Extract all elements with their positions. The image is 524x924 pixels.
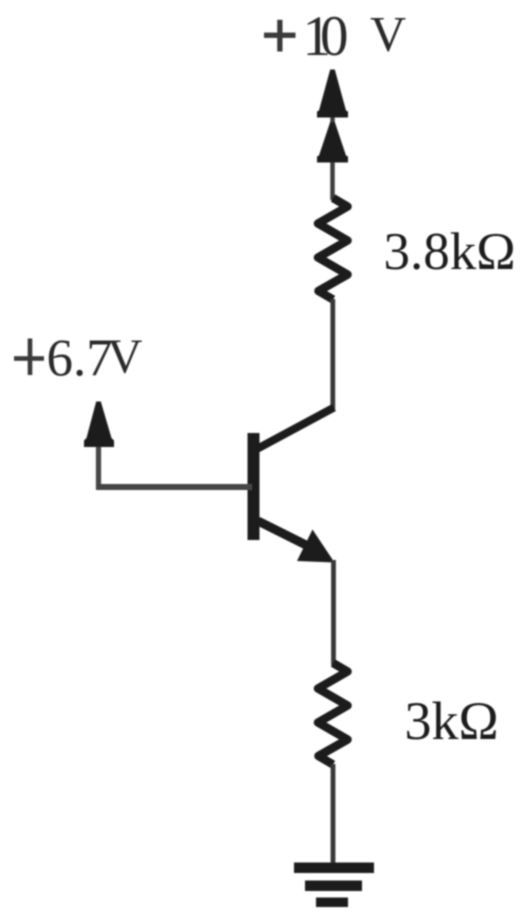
wire emitter xyxy=(331,560,336,665)
value label 3.8kΩ xyxy=(384,223,516,281)
wire supply shaft xyxy=(330,72,335,200)
svg-text:V: V xyxy=(107,329,142,384)
svg-text:3kΩ: 3kΩ xyxy=(405,691,499,751)
base probe arrow shaft xyxy=(96,440,101,490)
svg-text:3.8kΩ: 3.8kΩ xyxy=(384,223,516,281)
value label 3kΩ xyxy=(405,691,499,751)
base probe arrowhead xyxy=(84,402,114,448)
resistor R1 xyxy=(318,198,348,300)
resistor R2 xyxy=(318,663,348,765)
transistor Q1 collector lead xyxy=(255,408,334,451)
power arrowhead lower xyxy=(317,122,348,163)
power arrowhead upper xyxy=(317,70,348,118)
wire to ground xyxy=(331,764,336,866)
transistor Q1 base bar xyxy=(248,433,260,540)
svg-text:V: V xyxy=(370,6,406,62)
transistor Q1 emitter lead xyxy=(258,521,335,563)
ground xyxy=(294,863,374,908)
wire base xyxy=(96,484,252,490)
svg-text:10: 10 xyxy=(303,5,349,68)
node +10 V supply label xyxy=(264,5,406,68)
wire collector xyxy=(330,299,335,409)
svg-text:6.7: 6.7 xyxy=(47,330,113,388)
node +6.7V label xyxy=(14,329,142,388)
